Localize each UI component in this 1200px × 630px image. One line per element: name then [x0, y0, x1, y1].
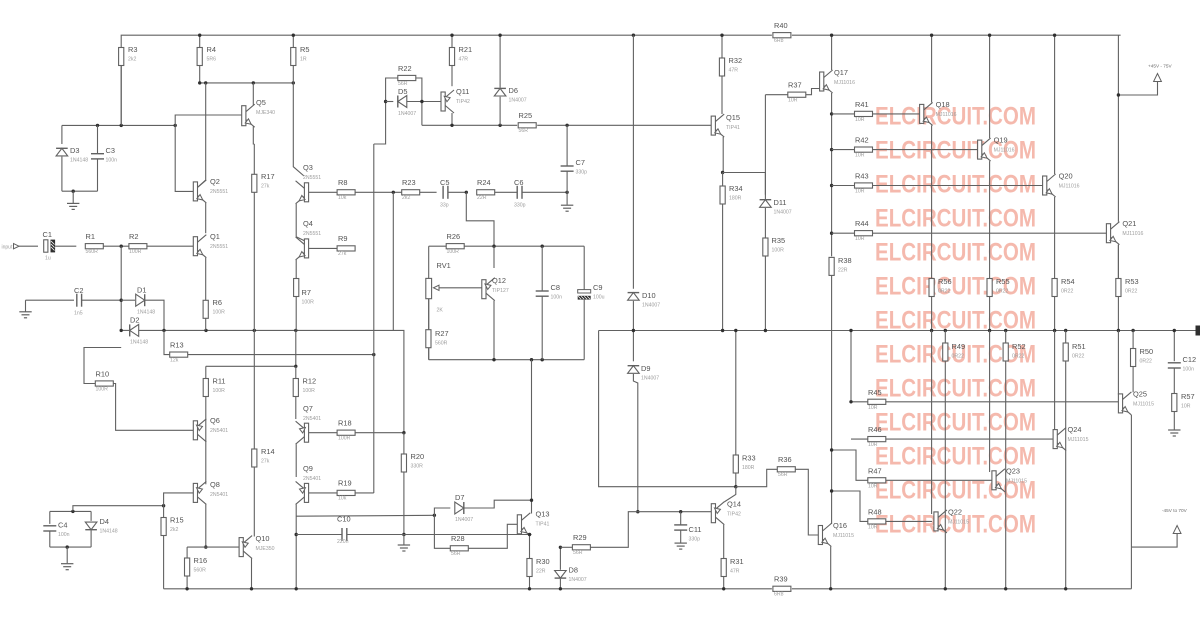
junction: [530, 358, 533, 361]
svg-text:D3: D3: [70, 146, 79, 155]
transistor Q2: [193, 177, 228, 203]
resistor R7: [294, 279, 315, 306]
svg-text:56R: 56R: [573, 550, 583, 556]
svg-text:2N5551: 2N5551: [210, 189, 228, 195]
resistor R31: [721, 557, 743, 577]
resistor R55: [987, 277, 1010, 297]
svg-text:10R: 10R: [1181, 404, 1191, 410]
wire: [90, 511, 92, 521]
svg-text:180R: 180R: [729, 196, 742, 202]
wire R19 to Q9 base: [309, 492, 338, 494]
wire: [61, 157, 63, 192]
svg-text:2N5401: 2N5401: [210, 428, 228, 434]
wire emitter resistor to output node: [1054, 297, 1056, 331]
capacitor C1: [43, 230, 56, 262]
wire R18 right: [355, 432, 404, 434]
svg-text:R17: R17: [261, 172, 275, 181]
wire: [832, 149, 855, 151]
junction: [1173, 329, 1176, 332]
wire R35 down to output node: [764, 256, 766, 331]
wire D6 top: [499, 35, 501, 87]
wire C6 to C7 node: [522, 191, 567, 193]
junction: [198, 34, 201, 37]
wire R50 to Q25 collector: [1132, 367, 1134, 393]
junction: [530, 499, 533, 502]
diode D5: [398, 87, 416, 117]
wire: [832, 113, 855, 115]
transistor Q21: [1106, 219, 1143, 245]
wire D2 to R6 bottom: [139, 329, 206, 331]
svg-text:Q4: Q4: [303, 219, 313, 228]
wire top positive rail right of R40: [792, 34, 1121, 36]
svg-text:Q12: Q12: [492, 276, 506, 285]
wire: [680, 512, 682, 525]
wire R11 top: [205, 366, 207, 378]
resistor R57: [1172, 392, 1195, 412]
svg-text:220n: 220n: [337, 539, 349, 545]
resistor R28: [450, 534, 468, 557]
svg-text:1N4007: 1N4007: [398, 111, 416, 117]
wire Q2 emitter to Q1 collector: [205, 203, 207, 233]
svg-text:R50: R50: [1140, 347, 1154, 356]
svg-text:MJ11016: MJ11016: [1122, 231, 1143, 237]
svg-text:R7: R7: [302, 288, 311, 297]
wire Vbe box bottom: [429, 359, 585, 361]
svg-text:R9: R9: [338, 234, 347, 243]
wire down to clamp network: [120, 246, 122, 330]
wire Q7 collector to Q9: [295, 444, 297, 477]
wire: [55, 245, 76, 247]
wire top positive rail left of R40: [121, 35, 772, 125]
svg-text:10k: 10k: [338, 496, 347, 502]
resistor R56: [929, 277, 952, 297]
wire bias box bottom: [62, 190, 98, 192]
wire R17 to R14 column lower: [253, 330, 255, 449]
svg-text:1N4007: 1N4007: [569, 577, 587, 583]
wire Q1 emitter to R6: [205, 258, 207, 301]
svg-text:R55: R55: [996, 277, 1010, 286]
svg-text:10R: 10R: [868, 405, 878, 411]
svg-text:Q22: Q22: [948, 508, 962, 517]
junction: [930, 329, 933, 332]
diode D1: [136, 286, 156, 316]
transistor Q6: [193, 416, 228, 442]
wire Q17 emitter column: [831, 93, 833, 256]
wire R52 to Q23 column: [1005, 361, 1007, 589]
wire R21 to Q11 emitter: [451, 66, 453, 87]
wire R42 to Q19 base: [873, 149, 978, 151]
wire Q3 base from R8: [309, 191, 338, 193]
capacitor C10: [337, 515, 351, 546]
svg-text:Q9: Q9: [303, 464, 313, 473]
wire: [121, 329, 129, 331]
junction: [433, 514, 436, 517]
ground: [67, 203, 79, 209]
junction: [830, 34, 833, 37]
transistor Q5: [242, 98, 275, 127]
svg-text:TIP41: TIP41: [536, 522, 550, 528]
wire R3 bottom lead: [120, 66, 122, 126]
resistor R9: [337, 234, 355, 257]
wire Q15 emitter down: [722, 137, 724, 173]
junction: [120, 124, 123, 127]
transistor Q1: [193, 232, 228, 258]
svg-text:R8: R8: [338, 178, 347, 187]
svg-text:D5: D5: [398, 87, 407, 96]
junction: [988, 329, 991, 332]
svg-text:Q16: Q16: [833, 521, 847, 530]
wire: [832, 232, 855, 234]
junction: [830, 232, 833, 235]
wire R6 bottom: [205, 318, 207, 330]
junction: [174, 124, 177, 127]
wire R7 bottom: [295, 297, 297, 331]
wire R17 to R14 column upper: [253, 192, 255, 330]
resistor R16: [185, 556, 208, 576]
junction: [722, 587, 725, 590]
junction: [185, 587, 188, 590]
svg-text:R47: R47: [868, 467, 882, 476]
resistor R25: [518, 111, 536, 134]
svg-text:MJ11016: MJ11016: [936, 112, 957, 118]
resistor R12: [293, 377, 316, 397]
junction: [120, 299, 123, 302]
svg-text:100n: 100n: [1183, 367, 1195, 373]
resistor R51: [1063, 342, 1085, 361]
wire Q13 emitter to R30: [529, 533, 531, 559]
wire: [49, 511, 51, 524]
svg-text:10R: 10R: [855, 189, 865, 195]
junction: [528, 587, 531, 590]
resistor R15: [161, 516, 184, 536]
wire: [186, 547, 188, 558]
svg-text:10R: 10R: [855, 153, 865, 159]
svg-text:D7: D7: [455, 493, 464, 502]
svg-text:R42: R42: [855, 136, 869, 145]
wire D9 down to driver base node: [633, 374, 637, 512]
node input bias junction: [120, 245, 123, 248]
svg-text:TIP127: TIP127: [492, 288, 509, 294]
svg-text:2k2: 2k2: [128, 57, 136, 63]
resistor R27: [426, 329, 449, 348]
wire Q5 base: [175, 115, 242, 125]
svg-text:100n: 100n: [58, 532, 70, 538]
junction: [372, 353, 375, 356]
svg-text:56R: 56R: [519, 128, 529, 134]
wire Q4 emitter to R7: [295, 260, 297, 279]
wire: [559, 579, 561, 589]
wire R29 node to D8: [559, 547, 561, 570]
wire: [1132, 331, 1134, 349]
svg-text:Q21: Q21: [1122, 219, 1136, 228]
junction: [720, 34, 723, 37]
svg-text:47R: 47R: [730, 569, 740, 575]
svg-text:R44: R44: [855, 219, 869, 228]
capacitor C8: [536, 283, 562, 301]
diode D6: [494, 86, 526, 104]
wire Q10 collector to rail: [251, 559, 253, 589]
wire C12 to R57: [1173, 368, 1175, 394]
resistor R30: [527, 557, 550, 577]
svg-text:MJ11016: MJ11016: [834, 80, 855, 86]
resistor R8: [337, 178, 355, 201]
wire: [26, 299, 75, 301]
diode D11: [760, 198, 792, 216]
wire: [49, 531, 51, 547]
wire VAS collector node: [200, 82, 294, 84]
junction: [292, 34, 295, 37]
wire R34 down to output node: [722, 204, 724, 331]
junction: [734, 485, 737, 488]
svg-text:R46: R46: [868, 425, 882, 434]
svg-text:Q24: Q24: [1068, 425, 1082, 434]
svg-text:2k2: 2k2: [402, 195, 410, 201]
wire: [292, 35, 294, 47]
svg-text:1N4007: 1N4007: [641, 376, 659, 382]
resistor R24: [477, 178, 495, 201]
resistor R37: [788, 81, 806, 104]
resistor R47: [868, 467, 886, 490]
svg-text:33p: 33p: [440, 203, 449, 209]
svg-text:Q5: Q5: [256, 98, 266, 107]
wire R30 to rail: [529, 577, 531, 589]
transistor Q17: [820, 68, 855, 93]
svg-text:MJ11016: MJ11016: [994, 148, 1015, 154]
svg-text:MJ11015: MJ11015: [833, 533, 854, 539]
svg-text:10R: 10R: [868, 525, 878, 531]
resistor R36: [777, 455, 795, 478]
junction: [849, 329, 852, 332]
svg-text:D4: D4: [100, 517, 109, 526]
svg-text:R56: R56: [938, 277, 952, 286]
wire: [428, 348, 430, 360]
svg-text:R32: R32: [729, 56, 743, 65]
junction: [1131, 329, 1134, 332]
svg-text:330R: 330R: [411, 464, 424, 470]
svg-text:100R: 100R: [447, 249, 460, 255]
wire: [61, 125, 63, 144]
wire R48 feed: [832, 491, 868, 521]
wire to Q25 base: [1117, 331, 1119, 395]
wire to ground: [66, 547, 68, 563]
wire R20 bottom: [403, 472, 405, 535]
wire R46 to Q24 base: [886, 438, 1053, 440]
svg-text:D10: D10: [642, 291, 656, 300]
resistor R35: [763, 236, 785, 256]
svg-text:Q8: Q8: [210, 480, 220, 489]
svg-text:2N5401: 2N5401: [210, 492, 228, 498]
svg-text:1N4007: 1N4007: [509, 98, 527, 104]
wire R10 to Q6 base: [113, 384, 193, 431]
wire box to R15 node: [73, 506, 164, 512]
wire to Q8 base: [164, 493, 194, 506]
wire Q12 emitter up: [493, 246, 495, 268]
svg-text:R31: R31: [730, 557, 744, 566]
junction: [204, 545, 207, 548]
svg-text:100R: 100R: [96, 387, 109, 393]
svg-text:C2: C2: [74, 286, 83, 295]
svg-text:R57: R57: [1181, 392, 1195, 401]
wire to ground: [403, 535, 405, 545]
resistor R50: [1131, 347, 1154, 367]
resistor R23: [402, 178, 420, 201]
svg-text:+45V - 75V: +45V - 75V: [1148, 64, 1172, 69]
svg-text:C5: C5: [440, 178, 449, 187]
wire Q18 emitter to R56: [931, 125, 933, 278]
transistor Q8: [193, 480, 228, 504]
junction: [96, 124, 99, 127]
svg-text:R33: R33: [742, 454, 756, 463]
wire R44 to Q21 base: [873, 232, 1107, 234]
wire to Q23 base: [989, 331, 991, 473]
svg-text:C3: C3: [106, 146, 115, 155]
junction: [162, 504, 165, 507]
svg-text:100n: 100n: [551, 295, 563, 301]
wire R38 down to Q16 collector: [831, 275, 833, 524]
resistor R29: [572, 533, 590, 556]
wire D11 to R35: [764, 208, 766, 238]
junction: [450, 124, 453, 127]
svg-text:Q14: Q14: [727, 500, 741, 509]
resistor R33: [733, 454, 755, 474]
junction: [492, 245, 495, 248]
svg-text:R18: R18: [338, 419, 352, 428]
wire R25 to Q15 base: [537, 124, 711, 126]
svg-text:R24: R24: [477, 178, 491, 187]
junction: [559, 546, 562, 549]
resistor R53: [1116, 277, 1139, 297]
wire: [1005, 331, 1007, 344]
wire to Q24 base: [1054, 331, 1056, 431]
diode D9: [628, 364, 660, 382]
wire: [566, 171, 568, 205]
wire R4 bottom lead: [199, 66, 201, 83]
junction: [849, 400, 852, 403]
wire R46 left lead: [851, 438, 868, 440]
wire: [97, 159, 99, 191]
wire R29 up to driver base node: [590, 512, 637, 548]
svg-text:10R: 10R: [868, 484, 878, 490]
diode D7: [455, 493, 473, 523]
wire R14 to Q10 emitter: [253, 467, 255, 537]
wiper RV1: [434, 285, 482, 290]
svg-text:R16: R16: [194, 556, 208, 565]
wire R12 to Q7: [295, 397, 297, 420]
resistor R34: [720, 184, 743, 204]
svg-text:D6: D6: [509, 86, 518, 95]
wire to D7: [434, 508, 450, 515]
resistor R41: [855, 100, 873, 123]
wire emitter resistor to output node: [931, 297, 933, 331]
svg-text:R49: R49: [952, 342, 966, 351]
junction: [565, 191, 568, 194]
wire Q20 collector to rail: [1054, 35, 1056, 174]
wire bias box top: [62, 124, 175, 126]
resistor R38: [829, 256, 852, 275]
svg-text:MJ11016: MJ11016: [1059, 184, 1080, 190]
junction: [492, 358, 495, 361]
junction: [1053, 34, 1056, 37]
svg-text:100n: 100n: [106, 158, 118, 164]
wire to R28: [434, 515, 450, 548]
wire to C12: [1173, 331, 1175, 362]
svg-text:2N5551: 2N5551: [210, 244, 228, 250]
transistor Q3: [296, 163, 322, 204]
svg-text:0R22: 0R22: [938, 289, 951, 295]
svg-text:MJ11015: MJ11015: [1068, 437, 1089, 443]
wire: [451, 35, 453, 47]
wire rail to D10: [632, 35, 634, 289]
junction: [541, 245, 544, 248]
ground: [61, 564, 73, 570]
watermark column ELCIRCUIT.COM: [875, 103, 1036, 539]
junction: [721, 329, 724, 332]
capacitor C11: [674, 525, 701, 543]
wire Q3 emitter to Q4 collector: [295, 204, 297, 237]
svg-text:1N4148: 1N4148: [130, 340, 148, 346]
svg-text:R26: R26: [447, 232, 461, 241]
node input terminal: [2, 244, 20, 251]
svg-text:ELCIRCUIT.COM: ELCIRCUIT.COM: [875, 239, 1036, 267]
junction: [384, 100, 387, 103]
junction: [250, 587, 253, 590]
wire Q16 emitter to rail: [830, 547, 832, 589]
capacitor C4: [43, 521, 69, 539]
junction: [294, 365, 297, 368]
svg-text:1N4007: 1N4007: [642, 303, 660, 309]
junction: [402, 431, 405, 434]
wire R37 left: [765, 94, 787, 96]
wire: [428, 299, 430, 330]
junction: [830, 112, 833, 115]
transistor Q15: [711, 113, 740, 137]
wire R49 to Q22 collector/emitter column: [944, 361, 946, 589]
resistor R49: [943, 342, 965, 361]
wire R5 to Q3 collector: [293, 83, 304, 176]
junction: [636, 510, 639, 513]
junction: [1117, 329, 1120, 332]
junction: [198, 81, 201, 84]
svg-text:Q19: Q19: [994, 136, 1008, 145]
svg-text:Q6: Q6: [210, 416, 220, 425]
wire R36 left to Q14 collector: [736, 469, 778, 486]
junction: [528, 533, 531, 536]
wire D5 to Q11 base: [407, 101, 441, 103]
transistor Q24: [1053, 425, 1088, 451]
svg-text:0R22: 0R22: [1061, 289, 1074, 295]
resistor R18: [337, 419, 355, 442]
wire: [186, 576, 188, 589]
junction: [295, 533, 298, 536]
transistor Q23: [992, 467, 1027, 492]
wire R33 to Q14 collector: [735, 473, 737, 487]
wire clamp node to feedback R18/R20: [206, 330, 404, 432]
wire output node to driver collectors: [599, 331, 736, 487]
svg-text:6R8: 6R8: [774, 592, 784, 598]
diode D8: [555, 566, 587, 584]
svg-text:47R: 47R: [459, 57, 469, 63]
junction: [66, 545, 69, 548]
svg-text:R54: R54: [1061, 277, 1075, 286]
resistor R43: [855, 172, 873, 195]
svg-text:100R: 100R: [302, 300, 315, 306]
svg-text:R36: R36: [778, 455, 792, 464]
junction: [830, 489, 833, 492]
svg-text:R25: R25: [519, 111, 533, 120]
svg-text:ELCIRCUIT.COM: ELCIRCUIT.COM: [875, 205, 1036, 233]
junction: [830, 148, 833, 151]
svg-text:10R: 10R: [868, 442, 878, 448]
